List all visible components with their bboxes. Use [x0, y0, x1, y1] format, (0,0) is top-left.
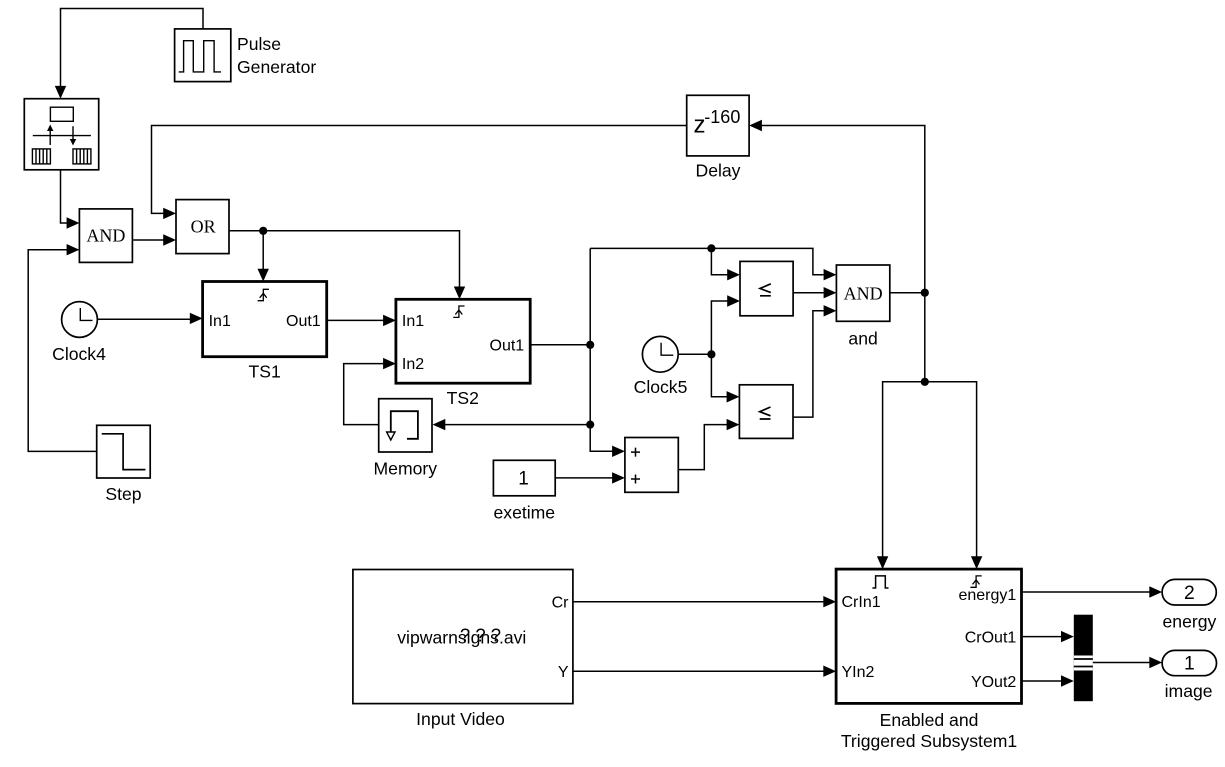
svg-text:AND: AND [844, 283, 883, 303]
arrowhead TS1 In1 [190, 313, 203, 324]
svg-text:? ? ?: ? ? ? [460, 625, 501, 646]
arrowhead AND(and) in2 [824, 287, 837, 298]
arrowhead concat in1 [1061, 631, 1074, 642]
svg-text:image: image [1165, 681, 1213, 701]
subsystem TS2 [396, 299, 530, 383]
junction dot AND(and) out [921, 289, 929, 297]
arrowhead subsystem trigger [971, 556, 982, 569]
wire right bus down [924, 293, 926, 382]
relational operator upper (<=) [740, 261, 793, 315]
wire TS1 Out1 to TS2 In1 [327, 319, 385, 321]
wire Clock4 to TS1 In1 [97, 318, 191, 320]
input video block [353, 570, 573, 704]
memory block [379, 399, 432, 452]
arrowhead YIn2 [823, 666, 836, 677]
wire YOut2 to concat [1022, 680, 1063, 682]
svg-text:Pulse: Pulse [237, 34, 281, 54]
arrowhead lower LE in1 [727, 391, 740, 402]
wire concat to outport 1 [1093, 662, 1151, 664]
wire Input Video Y to YIn2 [573, 670, 825, 672]
svg-text:Generator: Generator [237, 57, 316, 77]
svg-text:energy: energy [1163, 611, 1217, 631]
junction dot OR out [259, 227, 267, 235]
svg-text:In1: In1 [209, 313, 231, 330]
subsystem TS1 [203, 282, 327, 357]
svg-text:Out1: Out1 [490, 337, 525, 354]
junction dot subsystem feed [921, 378, 929, 386]
wire junction to upper LE in2 [711, 301, 728, 354]
wire edge-detect block to AND in1 [61, 170, 69, 223]
wire junction to lower LE in1 [711, 354, 728, 397]
pulse generator block [175, 29, 231, 82]
arrowhead upper LE in1 [727, 269, 740, 280]
svg-text:Clock5: Clock5 [634, 377, 688, 397]
junction dot Clock5 [707, 350, 715, 358]
logical operator OR [176, 200, 229, 254]
arrowhead outport 2 [1149, 586, 1162, 597]
svg-text:In2: In2 [402, 356, 424, 373]
arrowhead Sum in2 [612, 472, 625, 483]
logical operator AND (and) [836, 265, 889, 321]
wire bus junction to Memory input [445, 424, 591, 426]
wire branch to upper LE in1 [711, 248, 728, 274]
arrowhead OR in1 [163, 208, 176, 219]
wire exetime to Sum in2 [555, 477, 613, 479]
wire upper LE out to AND(and) in2 [793, 292, 825, 294]
junction dot top horizontal [707, 244, 715, 252]
arrowhead CrIn1 [823, 596, 836, 607]
svg-text:CrOut1: CrOut1 [965, 629, 1017, 646]
delay block [687, 95, 749, 156]
arrowhead Sum in1 [612, 446, 625, 457]
wire CrOut1 to concat [1022, 636, 1063, 638]
relational operator lower (<=) [739, 385, 793, 439]
wire Memory out to TS2 In2 [344, 364, 385, 425]
outport 1 [1162, 650, 1216, 675]
wire AND(and) out to right bus and Delay [762, 126, 925, 293]
outport 2 [1162, 579, 1216, 605]
arrowhead TS2 In2 [383, 358, 396, 369]
svg-text:Clock4: Clock4 [52, 344, 106, 364]
enable glyph [872, 576, 888, 588]
svg-text:In1: In1 [402, 313, 424, 330]
svg-text:Step: Step [105, 484, 141, 504]
arrowhead concat in2 [1061, 675, 1074, 686]
trigger glyph TS2 [453, 306, 464, 317]
svg-text:Triggered Subsystem1: Triggered Subsystem1 [841, 731, 1017, 751]
wire top horizontal to AND(and) in1 [590, 248, 825, 274]
arrowhead TS2 In1 [383, 315, 396, 326]
enabled and triggered subsystem [836, 569, 1021, 703]
logical operator AND [79, 209, 132, 263]
arrowhead upper LE in2 [727, 295, 740, 306]
svg-text:and: and [848, 328, 877, 348]
wire branch to subsystem enable [883, 382, 925, 558]
arrowhead subsystem enable [877, 556, 888, 569]
arrowhead lower LE in2 [727, 419, 740, 430]
svg-text:Input Video: Input Video [416, 709, 505, 729]
svg-text:CrIn1: CrIn1 [842, 594, 881, 611]
arrowhead TS1 trigger [258, 269, 269, 282]
svg-text:Delay: Delay [696, 161, 741, 181]
svg-text:YOut2: YOut2 [971, 674, 1016, 691]
arrowhead AND in1 [67, 217, 80, 228]
svg-text:2: 2 [1184, 583, 1195, 604]
clock Clock4 [62, 302, 98, 338]
svg-text:YIn2: YIn2 [842, 664, 875, 681]
arrowhead into edge-detect block [55, 86, 66, 99]
trigger glyph subsystem [970, 576, 981, 587]
wire energy1 to outport 2 [1022, 591, 1151, 593]
svg-text:OR: OR [191, 216, 216, 236]
clock Clock5 [642, 336, 678, 372]
wire Delay out to OR in1 [152, 126, 687, 214]
wire OR out to TS2 trigger [229, 231, 460, 288]
arrowhead AND(and) in3 [824, 305, 837, 316]
step block [97, 425, 151, 478]
matrix concatenate bar [1074, 615, 1093, 702]
wire vertical bus to Sum in1 [590, 248, 613, 451]
edge-detect block [24, 99, 98, 170]
arrowhead AND in2 [67, 244, 80, 255]
wire Pulse Generator to edge-detect block [61, 9, 204, 89]
svg-text:exetime: exetime [493, 503, 555, 523]
wire lower LE out to AND(and) in3 [793, 311, 825, 417]
svg-text:Out1: Out1 [286, 313, 321, 330]
wire Sum out to lower LE in2 [678, 425, 728, 470]
svg-text:1: 1 [1184, 654, 1195, 675]
svg-text:TS2: TS2 [447, 388, 479, 408]
junction dot TS2 Out1 [586, 341, 594, 349]
svg-text:1: 1 [518, 468, 529, 489]
trigger glyph TS1 [258, 289, 269, 300]
wire AND out to OR in2 [132, 239, 164, 241]
wire branch OR out to TS1 trigger [262, 231, 264, 270]
arrowhead OR in2 [163, 234, 176, 245]
arrowhead outport 1 [1149, 657, 1162, 668]
wire Clock5 to junction [678, 353, 712, 355]
svg-text:TS1: TS1 [249, 362, 281, 382]
svg-text:AND: AND [86, 225, 125, 245]
svg-text:Y: Y [558, 664, 569, 681]
wire Step to AND in2 [28, 250, 97, 452]
junction dot Memory branch [586, 421, 594, 429]
wire branch to subsystem trigger [925, 382, 977, 558]
svg-text:Cr: Cr [552, 595, 570, 612]
arrowhead AND(and) in1 [824, 269, 837, 280]
svg-text:Enabled and: Enabled and [880, 710, 979, 730]
svg-text:-160: -160 [704, 107, 740, 127]
arrowhead TS2 trigger [454, 287, 465, 300]
arrowhead Memory input (left pointing) [433, 419, 446, 430]
arrowhead Delay input (left pointing) [749, 120, 762, 131]
wire TS2 Out1 to vertical bus [530, 344, 590, 346]
svg-text:energy1: energy1 [958, 587, 1016, 604]
wire Input Video Cr to CrIn1 [573, 601, 825, 603]
constant exetime [493, 460, 555, 496]
sum block [625, 438, 678, 493]
svg-text:Memory: Memory [374, 459, 438, 479]
